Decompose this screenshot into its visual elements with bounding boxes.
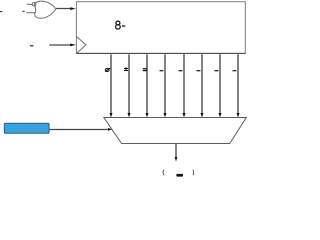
wire bit 8 (237, 54, 239, 113)
bit label 1 (105, 68, 109, 71)
node label dash left edge (0, 11, 2, 12)
or-gate U1 body (34, 1, 56, 18)
arrowhead mux output (175, 157, 178, 161)
select source block (cyan) (4, 123, 49, 133)
multiplexer U3 trapezoid (104, 118, 247, 144)
wire bit 5 (183, 54, 185, 113)
arrowhead bit 2 (127, 113, 130, 117)
bit label 4 dash (160, 70, 164, 71)
bit label 5 dash (179, 70, 183, 71)
register box bottom edge (76, 53, 246, 55)
bus bit wires Q7..Q0 with arrowheads into mux (111, 54, 238, 113)
bit label 6 dash (197, 70, 201, 71)
arrowhead bit 4 (163, 113, 166, 117)
wire: OR gate top input (27, 3, 33, 5)
wire bit 3 (146, 54, 148, 113)
arrowhead into register (data) (70, 7, 76, 10)
arrowhead bit 7 (218, 113, 221, 117)
arrowhead bit 5 (182, 113, 185, 117)
output label close paren (192, 170, 195, 176)
arrowhead bit 6 (200, 113, 203, 117)
bit label 8 dash (233, 70, 237, 71)
inverter bubble on OR gate top input (32, 2, 36, 6)
output label open paren (162, 170, 165, 176)
wire: select into mux (49, 129, 108, 131)
arrowhead bit 3 (145, 113, 148, 117)
clock label dash (30, 45, 34, 46)
wire bit 2 (128, 54, 130, 113)
arrowhead clock into register (70, 44, 76, 47)
wire: mux output (175, 144, 177, 157)
wire: OR gate output to register (56, 8, 73, 10)
register U2 box (76, 2, 245, 54)
arrowhead select into mux (108, 128, 112, 131)
wire bit 1 (110, 54, 112, 113)
wire bit 4 (164, 54, 166, 113)
bit label 2 (124, 67, 128, 71)
output label word blob (176, 174, 183, 177)
clock wedge symbol (76, 36, 86, 53)
register label 8- (116, 21, 121, 29)
wire: clock input (49, 44, 73, 46)
bit label 3 (143, 67, 147, 69)
arrowhead bit 1 (109, 113, 112, 117)
arrowhead bit 8 (236, 113, 239, 117)
wire bit 7 (219, 54, 221, 113)
node label dash input B (22, 11, 24, 12)
bit label 7 dash (215, 70, 219, 71)
wire: OR gate bottom input (26, 12, 36, 14)
wire bit 6 (201, 54, 203, 113)
